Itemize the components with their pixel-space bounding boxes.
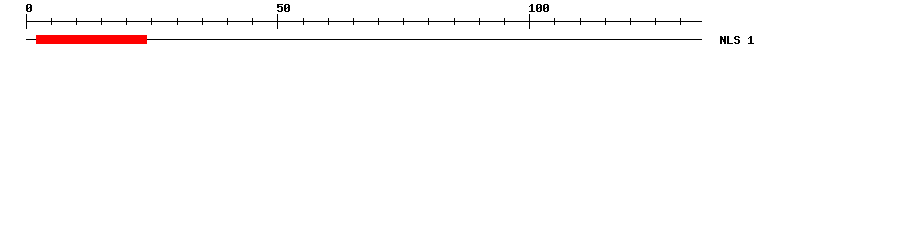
minor tick x=680 (680, 18, 681, 25)
feature backbone line (26, 39, 702, 40)
minor tick x=353 (353, 18, 354, 25)
minor tick x=630 (630, 18, 631, 25)
minor tick x=101 (101, 18, 102, 25)
major tick 100 (529, 14, 530, 29)
minor tick x=454 (454, 18, 455, 25)
minor tick x=554 (554, 18, 555, 25)
minor tick x=428 (428, 18, 429, 25)
minor tick x=151 (151, 18, 152, 25)
minor tick x=580 (580, 18, 581, 25)
minor tick x=227 (227, 18, 228, 25)
major tick 0 (26, 14, 27, 29)
minor tick x=655 (655, 18, 656, 25)
minor tick x=605 (605, 18, 606, 25)
minor tick x=252 (252, 18, 253, 25)
minor tick x=76 (76, 18, 77, 25)
minor tick x=328 (328, 18, 329, 25)
tick label 0 (26, 4, 32, 12)
ruler axis line (26, 21, 702, 22)
minor tick x=504 (504, 18, 505, 25)
feature box NLS 1 (red) (36, 35, 147, 44)
minor tick x=403 (403, 18, 404, 25)
minor tick x=479 (479, 18, 480, 25)
major tick 50 (277, 14, 278, 29)
minor tick x=126 (126, 18, 127, 25)
minor tick x=51 (51, 18, 52, 25)
feature label NLS 1 (720, 36, 754, 44)
minor tick x=303 (303, 18, 304, 25)
background (0, 0, 900, 58)
tick label 50 (277, 4, 290, 12)
minor tick x=378 (378, 18, 379, 25)
minor tick x=177 (177, 18, 178, 25)
minor tick x=202 (202, 18, 203, 25)
tick label 100 (529, 4, 549, 12)
